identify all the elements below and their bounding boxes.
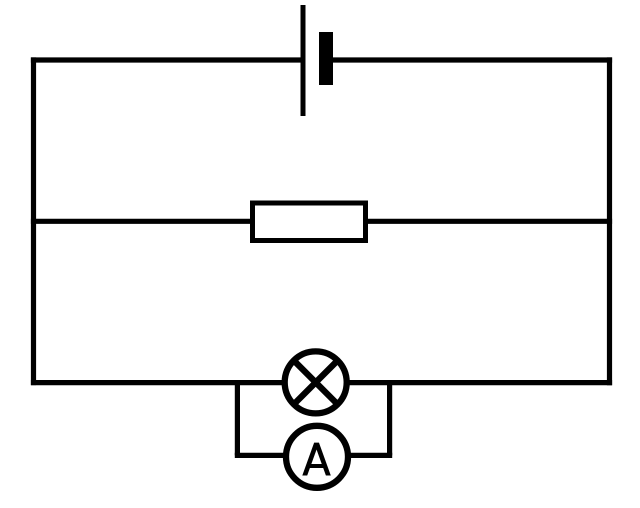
wire bottom branch [31,380,612,385]
resistor R1 [253,203,366,241]
wire left rail [31,57,36,385]
wire top-left segment [31,57,302,62]
battery B1 [303,5,333,116]
lamp L1 [285,351,347,413]
wire ammeter-branch left vertical [235,380,240,455]
wire ammeter-branch right vertical [387,380,392,455]
ammeter A1 [286,426,348,488]
wire top-right segment [331,57,612,62]
wire middle branch [31,219,612,224]
wire ammeter-branch bottom horizontal [235,453,392,458]
wire right rail [607,57,612,385]
